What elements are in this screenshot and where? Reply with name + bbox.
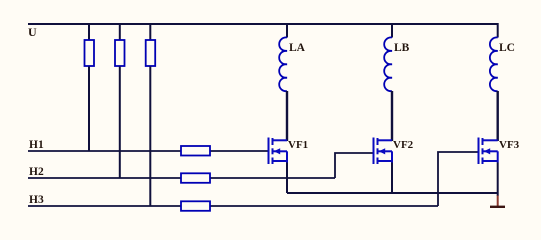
ground [490,206,505,208]
wire R1 bottom leg to H1 [88,67,90,152]
inductor LC [490,37,498,91]
resistor R1 [85,40,95,66]
wire source bus [287,192,498,194]
wire LB top leg from U bus [391,24,393,38]
svg-text:VF2: VF2 [393,139,414,151]
wire LC top leg from U bus [497,23,499,38]
resistor R4 (H1 series gate resistor) [181,146,210,156]
wire LA to VF1 drain [286,91,288,141]
svg-text:LA: LA [289,42,306,54]
svg-text:VF1: VF1 [288,139,308,151]
wire H2 riser to VF2 gate [335,153,374,178]
resistor R6 (H3 series gate resistor) [181,201,210,211]
node U bus (top supply rail) [28,23,499,25]
wire R3 top leg [149,24,151,40]
inductor LA [279,37,287,91]
wire R1 top leg [88,24,90,40]
resistor R5 (H2 series gate resistor) [181,173,210,183]
svg-text:H1: H1 [29,139,44,151]
ground stem [497,196,499,207]
wire H3 riser to VF3 gate [438,152,479,206]
svg-text:U: U [28,25,37,39]
transistor VF1 (N-MOSFET) [269,138,288,165]
wire VF2 source drop to bus [391,163,393,194]
wire LB to VF2 drain [391,91,393,141]
wire H1 line to gate of VF1 [28,150,268,152]
wire LA top leg from U bus [286,24,288,38]
wire R2 top leg [119,24,121,40]
wire H2 line [28,177,335,179]
inductor LB [384,37,392,91]
wire R2 bottom leg to H2 [119,67,121,179]
resistor R2 [115,40,125,66]
wire H3 line [28,205,438,207]
svg-text:VF3: VF3 [499,139,520,151]
resistor R3 [146,40,156,66]
wire VF3 source drop to ground [497,163,499,197]
svg-text:H2: H2 [29,166,44,178]
wire VF1 source drop to bus [286,163,288,194]
wire R3 bottom leg to H3 [149,67,151,207]
svg-text:LC: LC [499,42,515,54]
svg-text:LB: LB [394,42,410,54]
transistor VF3 (N-MOSFET) [479,138,498,165]
transistor VF2 (N-MOSFET) [374,138,393,165]
wire LC to VF3 drain [497,91,499,141]
svg-text:H3: H3 [29,194,44,206]
